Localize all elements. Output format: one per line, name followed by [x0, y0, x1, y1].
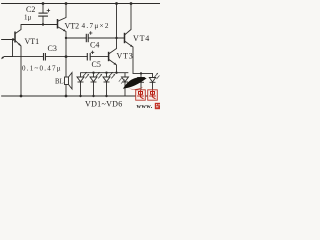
transistor VT2 — [58, 18, 67, 32]
wire LED6 anode lead — [152, 73, 154, 77]
LED VD1 — [77, 72, 89, 96]
wire bottom rail — [2, 95, 155, 97]
svg-text:BL: BL — [55, 79, 64, 86]
watermark square 1 — [136, 90, 146, 100]
wire C5 to VT3 base — [90, 56, 108, 58]
svg-text:VT3: VT3 — [117, 52, 134, 61]
wire VT4 collector vertical — [130, 4, 132, 30]
node dots middle — [12, 23, 142, 74]
wire input branch down — [4, 40, 13, 57]
node dots bottom rail — [20, 95, 108, 98]
node dots top rail — [42, 2, 133, 5]
svg-text:1μ: 1μ — [24, 13, 32, 21]
svg-text:C4: C4 — [90, 40, 99, 49]
wire C2 top lead — [42, 4, 44, 14]
wire C4 left lead — [66, 37, 86, 39]
LED VD6 — [149, 73, 159, 96]
wire C4 right lead — [88, 37, 116, 39]
svg-text:VT1: VT1 — [25, 37, 40, 46]
svg-text:VT4: VT4 — [133, 34, 150, 43]
watermark swoosh — [123, 77, 147, 89]
capacitor C5 — [87, 53, 90, 61]
capacitor C3 — [44, 53, 46, 61]
transistor VT4 — [125, 30, 134, 48]
svg-text:VD1~VD6: VD1~VD6 — [85, 99, 123, 108]
svg-text:4.7μ×2: 4.7μ×2 — [82, 22, 110, 30]
LED VD3 — [103, 72, 115, 96]
svg-text:C5: C5 — [92, 60, 101, 69]
LED VD4 (partly hidden by watermark) — [119, 73, 129, 96]
LED VD5 (under watermark) — [138, 73, 144, 96]
plus sign C2 — [47, 9, 50, 12]
svg-text:C3: C3 — [48, 44, 57, 53]
wire signal left of C3 — [4, 56, 43, 58]
input arrow — [1, 57, 4, 60]
watermark red glyph — [155, 103, 160, 109]
speaker BL — [65, 73, 73, 90]
transistor VT3 — [109, 49, 117, 66]
wire VT1 emitter vertical — [20, 46, 22, 96]
wire VT4 base lead — [117, 37, 125, 39]
wire speaker bottom lead — [65, 85, 67, 97]
wire VT4 emitter vertical — [132, 47, 134, 73]
wire VT3 collector vertical — [116, 4, 118, 49]
wire VT2 collector vertical — [65, 4, 67, 18]
wire VT1 collector to VT2 base — [21, 24, 58, 26]
capacitor C4 — [86, 34, 88, 42]
LED VD2 — [90, 72, 102, 96]
capacitor C2 — [38, 13, 48, 16]
svg-text:www.: www. — [137, 103, 153, 110]
transistor VT1 — [15, 25, 21, 47]
wire VT1 base lead — [2, 39, 16, 41]
plus sign C4 — [89, 31, 92, 34]
wire C3 to C5 — [46, 56, 88, 58]
plus sign C5 — [91, 51, 94, 54]
svg-text:VT2: VT2 — [65, 22, 80, 31]
wire C2 bottom lead — [42, 16, 44, 24]
wire top rail — [2, 3, 161, 5]
wire VT3 emitter vertical — [116, 65, 118, 73]
svg-text:0.1~0.47μ: 0.1~0.47μ — [22, 65, 62, 73]
wire VT2 emitter vertical to speaker — [65, 32, 67, 78]
watermark square 2 — [148, 90, 158, 100]
wire right LED rail — [133, 72, 153, 74]
wire left LED rail — [81, 72, 129, 74]
